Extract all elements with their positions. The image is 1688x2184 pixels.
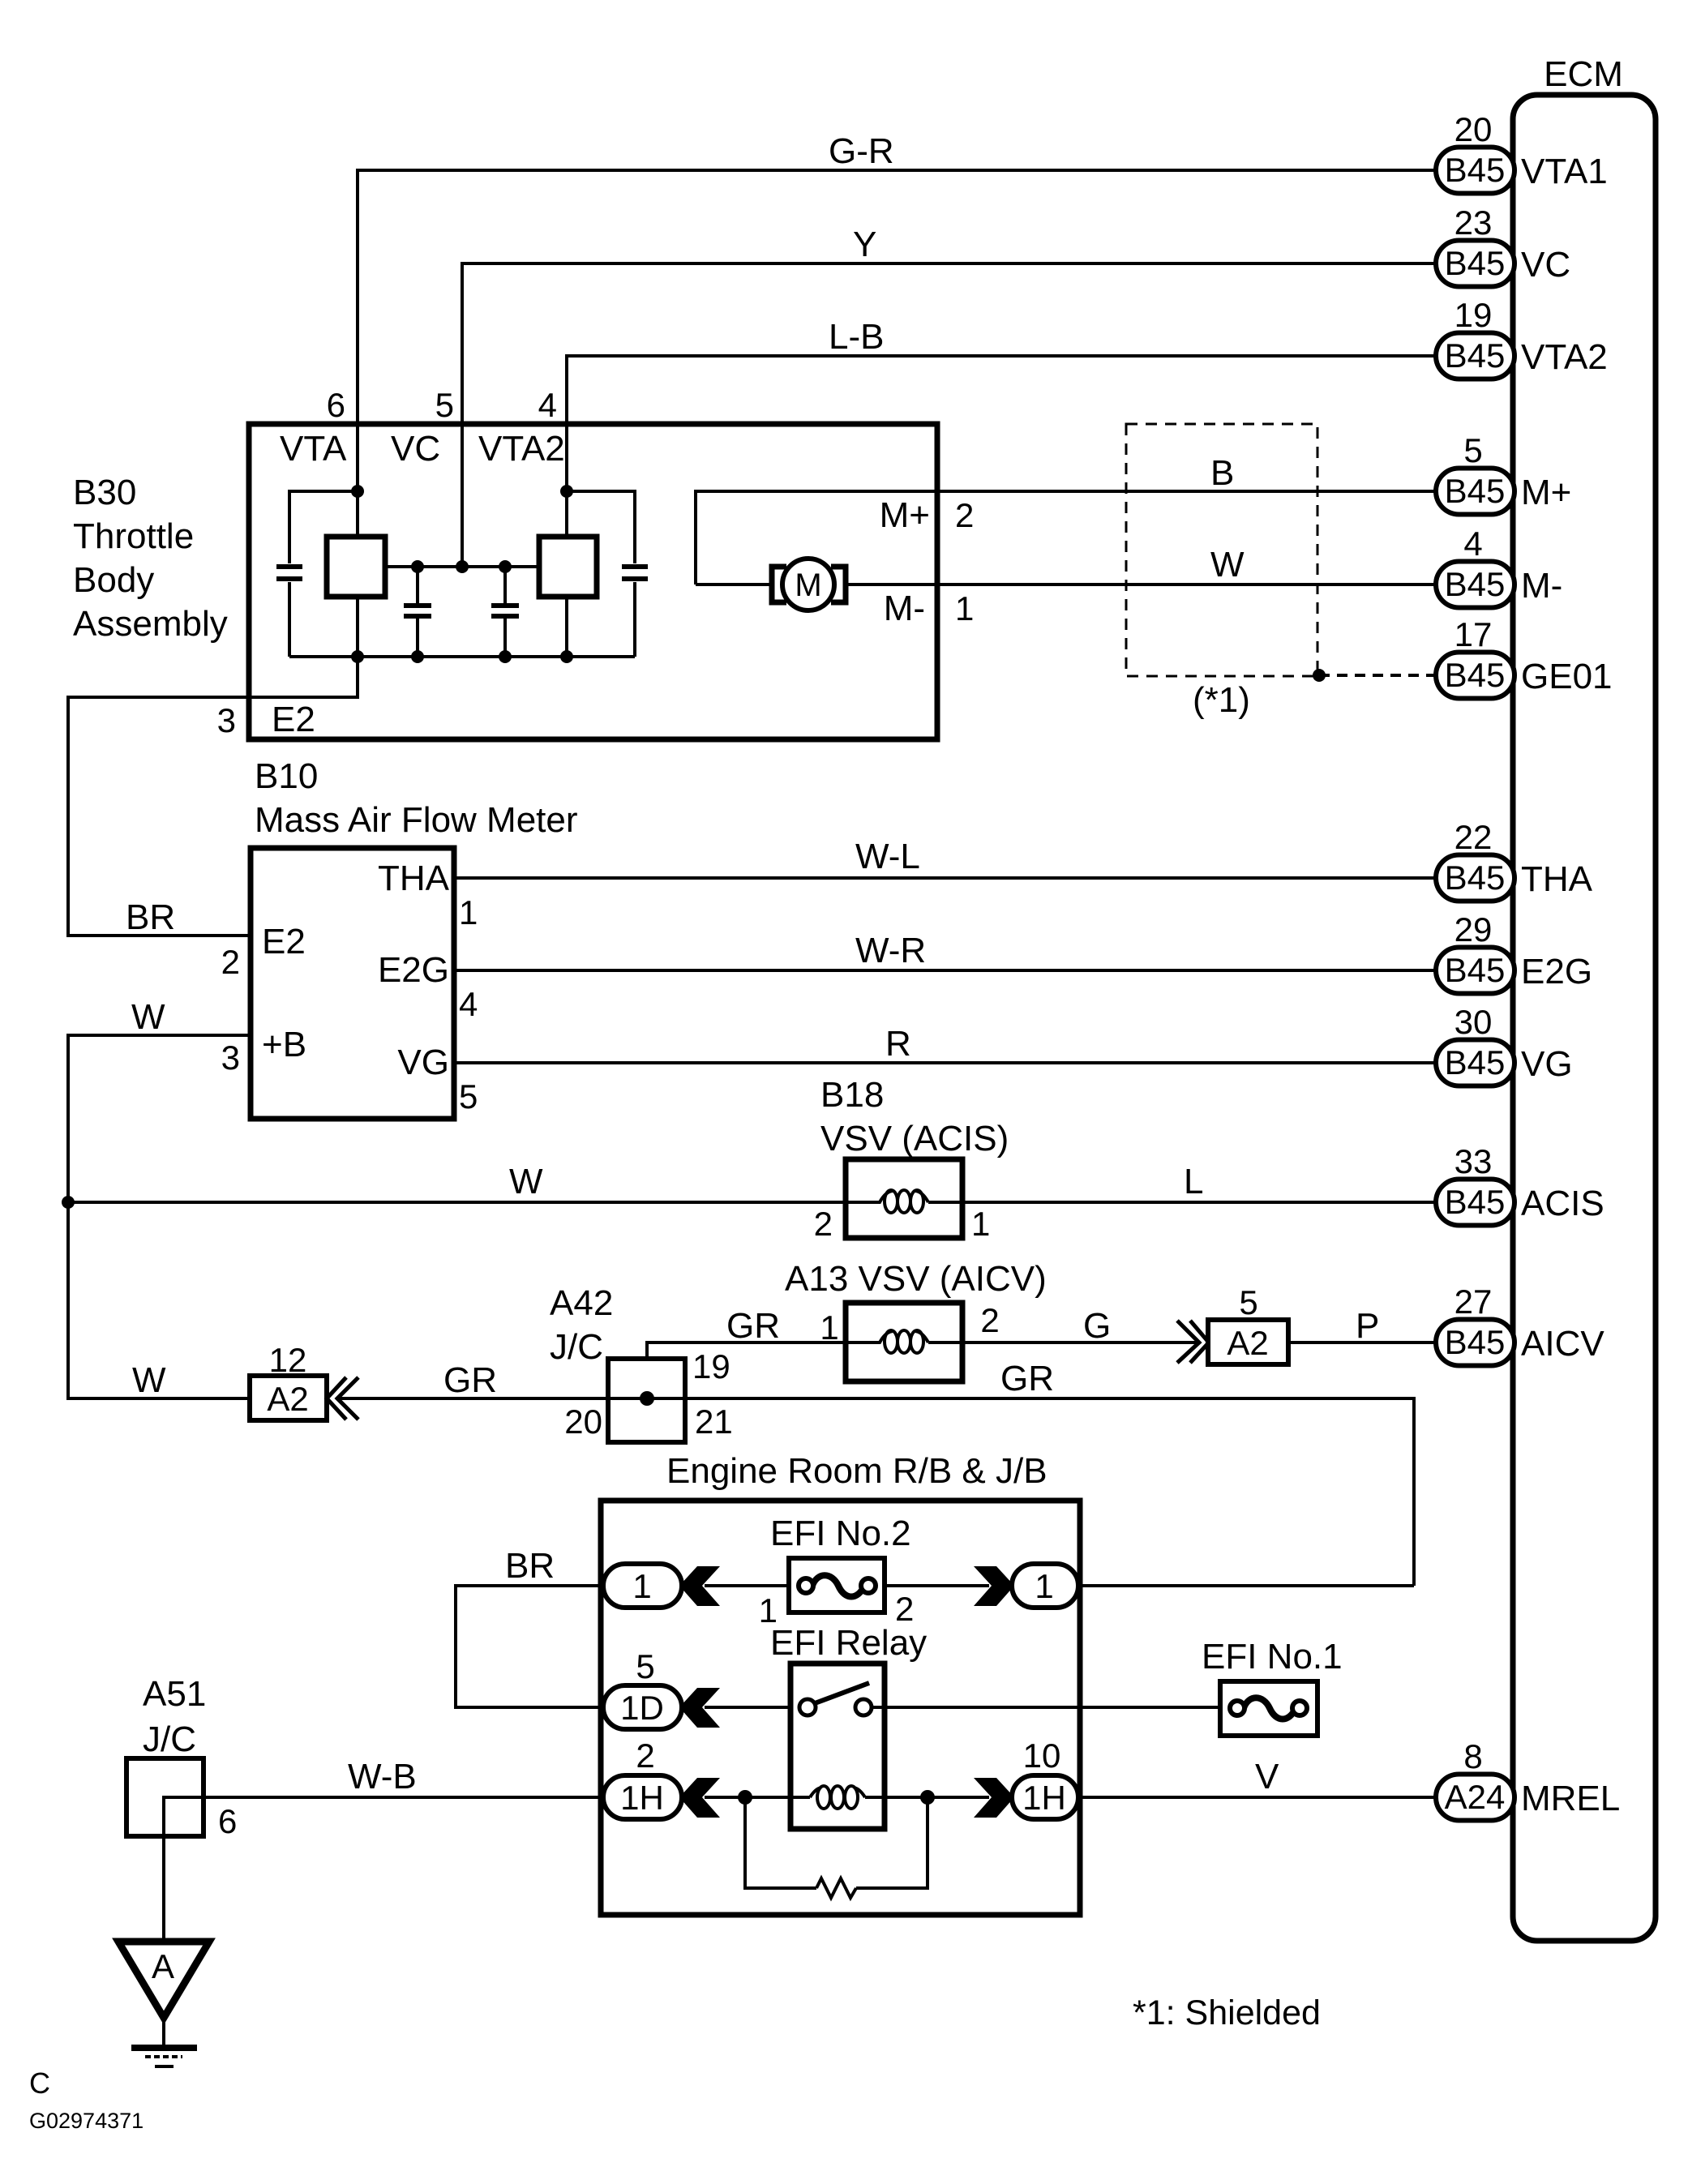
svg-text:M+: M+ (1521, 473, 1571, 512)
svg-text:GE01: GE01 (1521, 657, 1613, 696)
svg-text:A2: A2 (1227, 1324, 1268, 1362)
svg-text:5: 5 (1463, 431, 1482, 469)
svg-text:10: 10 (1023, 1736, 1061, 1775)
wire to EFI No.2 fuse (705, 1584, 789, 1587)
svg-text:2: 2 (814, 1205, 833, 1243)
motor M (772, 559, 846, 610)
svg-text:Assembly: Assembly (73, 604, 228, 644)
svg-text:VTA1: VTA1 (1521, 152, 1608, 191)
chevron arrow at terminal 1D (679, 1688, 720, 1728)
svg-text:MREL: MREL (1521, 1779, 1620, 1818)
svg-text:GR: GR (443, 1360, 497, 1400)
svg-text:5: 5 (435, 386, 454, 424)
connector terminal 1H right (1012, 1736, 1078, 1819)
svg-text:B10: B10 (255, 756, 318, 796)
svg-text:4: 4 (459, 985, 478, 1023)
capacitor C4 middle-right (491, 567, 519, 657)
wire: A42 pin 21 to EFI No.2 fuse output (685, 1398, 1414, 1586)
svg-text:B45: B45 (1445, 244, 1506, 282)
mass air flow meter B10 label (255, 756, 578, 840)
svg-text:5: 5 (1239, 1283, 1257, 1321)
svg-text:2: 2 (955, 496, 974, 534)
svg-text:VTA2: VTA2 (1521, 337, 1608, 377)
svg-text:2: 2 (980, 1301, 999, 1339)
junction connector A42 J/C (550, 1283, 733, 1442)
svg-text:GR: GR (1000, 1359, 1054, 1398)
wire W: +B branch down to A2 (12) (68, 1202, 250, 1400)
wire W-B: A51 J/C to terminal 1H (204, 1757, 603, 1797)
solenoid valve VSV AICV A13 (846, 1303, 1054, 1398)
svg-text:27: 27 (1455, 1283, 1493, 1321)
svg-text:Engine Room R/B & J/B: Engine Room R/B & J/B (666, 1451, 1048, 1491)
chevron arrow at terminal 1H right (974, 1778, 1014, 1818)
svg-text:M+: M+ (880, 495, 930, 535)
svg-text:Body: Body (73, 560, 154, 600)
svg-text:B30: B30 (73, 473, 136, 512)
svg-text:2: 2 (221, 943, 240, 981)
svg-text:THA: THA (1521, 859, 1593, 899)
capacitor C1 left (276, 567, 302, 579)
svg-text:B18: B18 (820, 1075, 884, 1115)
fuse EFI No.2 (759, 1558, 915, 1629)
svg-text:A24: A24 (1445, 1778, 1506, 1816)
wire V: 1H right to ECM MREL (1078, 1757, 1436, 1797)
svg-text:W: W (1210, 545, 1245, 585)
svg-text:BR: BR (505, 1546, 555, 1586)
chevron arrow at terminal 1 left (679, 1566, 720, 1606)
svg-text:22: 22 (1455, 818, 1493, 856)
ECM pin 17 connector B45 GE01 (1436, 615, 1613, 699)
capacitor C2 right (622, 567, 648, 579)
throttle M+ M- pin labels (880, 495, 975, 628)
engine room relay block box (601, 1501, 1080, 1915)
connector A2 (12) (250, 1341, 327, 1420)
svg-text:E2G: E2G (1521, 952, 1592, 991)
svg-text:GR: GR (726, 1306, 780, 1346)
svg-text:W: W (509, 1162, 543, 1201)
svg-text:A: A (152, 1947, 174, 1985)
ground symbol (131, 2018, 197, 2066)
svg-text:A13 VSV (AICV): A13 VSV (AICV) (785, 1259, 1047, 1299)
svg-text:1: 1 (632, 1567, 651, 1605)
svg-text:*1: Shielded: *1: Shielded (1133, 1993, 1321, 2032)
relay coil (810, 1786, 865, 1809)
svg-text:(*1): (*1) (1193, 680, 1250, 720)
wire BR: engine room 1 to 1D loop (456, 1546, 603, 1707)
node: W branch junction dot (62, 1196, 75, 1209)
svg-text:B45: B45 (1445, 336, 1506, 375)
svg-text:VG: VG (397, 1043, 449, 1082)
svg-text:VSV (ACIS): VSV (ACIS) (820, 1119, 1009, 1158)
ECM pin 30 connector B45 VG (1436, 1003, 1573, 1086)
svg-text:29: 29 (1455, 910, 1493, 949)
svg-text:W-L: W-L (855, 837, 920, 876)
wire Y: throttle VC pin 5 to ECM VC (462, 225, 1436, 567)
chevron double arrow into A2 (5) (1177, 1321, 1209, 1363)
wire L: VSV ACIS pin 1 to ECM ACIS (962, 1162, 1436, 1202)
svg-text:VTA2: VTA2 (478, 429, 565, 469)
connector terminal 1 right (1012, 1564, 1078, 1608)
svg-text:B45: B45 (1445, 565, 1506, 603)
svg-text:M-: M- (884, 589, 925, 628)
svg-text:6: 6 (327, 386, 345, 424)
svg-text:+B: +B (262, 1025, 306, 1064)
ECM pin 19 connector B45 VTA2 (1436, 296, 1608, 379)
svg-text:B45: B45 (1445, 472, 1506, 510)
fuse EFI No.1 (1220, 1681, 1317, 1736)
svg-text:21: 21 (695, 1402, 733, 1441)
motor M leads (696, 583, 937, 586)
svg-text:1: 1 (1035, 1567, 1053, 1605)
wire W-R: MAF E2G pin 4 to ECM E2G (454, 931, 1436, 970)
svg-text:B45: B45 (1445, 151, 1506, 189)
throttle body assembly B30 box (249, 386, 937, 739)
svg-text:20: 20 (564, 1402, 602, 1441)
svg-text:4: 4 (538, 386, 557, 424)
svg-text:A51: A51 (143, 1674, 206, 1714)
wire B: motor M+ to ECM M+ (696, 453, 1436, 585)
ECM pin 20 connector B45 VTA1 (1436, 110, 1608, 194)
svg-text:P: P (1356, 1306, 1379, 1346)
svg-text:VC: VC (1521, 245, 1570, 285)
wire from EFI No.2 fuse to right terminal (885, 1584, 989, 1587)
svg-text:30: 30 (1455, 1003, 1493, 1041)
svg-text:5: 5 (636, 1647, 654, 1685)
svg-text:19: 19 (692, 1347, 730, 1385)
svg-text:E2: E2 (262, 922, 306, 961)
svg-text:B45: B45 (1445, 656, 1506, 694)
svg-text:VC: VC (391, 429, 440, 469)
svg-text:Throttle: Throttle (73, 516, 194, 556)
svg-text:R: R (885, 1024, 911, 1064)
ECM pin 8 connector A24 MREL (1436, 1737, 1620, 1821)
wire shield drain to ECM GE01 (dashed) (1319, 674, 1436, 677)
svg-text:W: W (132, 1360, 166, 1400)
connector terminal 1 left (603, 1564, 682, 1608)
svg-text:L: L (1184, 1162, 1203, 1201)
svg-text:V: V (1255, 1757, 1279, 1796)
chevron arrow at terminal 1H left (679, 1778, 720, 1818)
ECM pin 29 connector B45 E2G (1436, 910, 1592, 994)
resistor R1 bypass (745, 1797, 928, 1898)
svg-text:B45: B45 (1445, 859, 1506, 897)
svg-text:17: 17 (1455, 615, 1493, 653)
svg-text:W-B: W-B (348, 1757, 417, 1796)
svg-text:J/C: J/C (143, 1719, 196, 1759)
connector A2 (5) (1208, 1283, 1288, 1364)
svg-text:3: 3 (217, 701, 236, 739)
svg-text:B45: B45 (1445, 1183, 1506, 1221)
svg-text:1: 1 (820, 1308, 838, 1347)
svg-text:23: 23 (1455, 203, 1493, 242)
svg-text:B: B (1210, 453, 1234, 493)
node dots in sensor network (351, 485, 573, 663)
svg-text:19: 19 (1455, 296, 1493, 334)
junction connector A51 J/C (126, 1674, 237, 1840)
svg-text:G02974371: G02974371 (29, 2109, 144, 2133)
sensor element box VTA (327, 491, 385, 657)
svg-text:B45: B45 (1445, 951, 1506, 989)
svg-text:12: 12 (269, 1341, 307, 1379)
wire P: connector A2 (5) to ECM AICV (1288, 1306, 1436, 1346)
solenoid valve VSV ACIS B18 (814, 1159, 991, 1243)
wire 1H to relay coil (705, 1796, 810, 1799)
wire: throttle E2 pin 3 to MAF E2 pin 2 (BR) (68, 657, 358, 937)
svg-text:1D: 1D (620, 1689, 664, 1727)
svg-text:1: 1 (971, 1205, 990, 1243)
svg-text:B45: B45 (1445, 1043, 1506, 1081)
node: coil right junction dot (920, 1790, 935, 1805)
svg-text:AICV: AICV (1521, 1324, 1604, 1364)
sensor bottom bus wire (289, 655, 635, 658)
wire 1D to relay switch (705, 1706, 808, 1709)
node: shield drain junction dot (1313, 669, 1326, 682)
svg-text:1: 1 (459, 893, 478, 931)
ECM pin 27 connector B45 AICV (1436, 1283, 1604, 1366)
throttle body B30 label (73, 473, 228, 644)
ECM pin 5 connector B45 M+ (1436, 431, 1571, 515)
svg-text:EFI No.1: EFI No.1 (1202, 1637, 1343, 1677)
svg-text:M: M (795, 567, 821, 603)
svg-text:5: 5 (459, 1077, 478, 1116)
wire L-B: throttle VTA2 pin 4 to ECM VTA2 (567, 317, 1436, 491)
svg-text:6: 6 (218, 1802, 237, 1840)
svg-text:G: G (1083, 1306, 1111, 1346)
svg-text:1H: 1H (1022, 1779, 1066, 1817)
svg-text:2: 2 (895, 1590, 914, 1628)
wire W-L: MAF THA pin 1 to ECM THA (454, 837, 1436, 878)
svg-text:A2: A2 (267, 1380, 308, 1418)
svg-text:33: 33 (1455, 1142, 1493, 1180)
capacitor C3 middle-left (404, 567, 431, 657)
shield box (*1) dashed (1126, 424, 1317, 720)
wire R: MAF VG pin 5 to ECM VG (454, 1024, 1436, 1064)
svg-text:W-R: W-R (855, 931, 926, 970)
svg-text:G-R: G-R (829, 131, 894, 171)
ECM U1 box (1513, 54, 1656, 1941)
wire G-R: throttle VTA pin 6 to ECM VTA1 (358, 131, 1436, 491)
svg-text:EFI No.2: EFI No.2 (770, 1514, 911, 1553)
wire G: VSV AICV pin 2 to connector A2 pin 5 (962, 1301, 1199, 1346)
svg-text:E2: E2 (272, 700, 315, 739)
svg-text:4: 4 (1463, 525, 1482, 563)
wire relay switch to EFI No.1 fuse (872, 1706, 1220, 1709)
mass air flow meter B10 box (221, 848, 478, 1119)
ECM pin 23 connector B45 VC (1436, 203, 1570, 287)
ground triangle A (118, 1942, 209, 2018)
wire A51 to ground (162, 1836, 165, 1942)
VSV (ACIS) B18 label (820, 1075, 1009, 1158)
svg-text:BR: BR (126, 897, 175, 937)
wire GR: junction A42 pin 19 to VSV AICV pin 1 (647, 1306, 846, 1398)
connector terminal 1D (603, 1647, 682, 1729)
node: coil left junction dot (738, 1790, 752, 1805)
svg-text:J/C: J/C (550, 1327, 603, 1367)
svg-text:1: 1 (955, 589, 974, 627)
svg-text:W: W (131, 997, 165, 1037)
ECM pin 4 connector B45 M- (1436, 525, 1562, 608)
svg-text:M-: M- (1521, 566, 1562, 606)
wire GR: A2 (12) to junction A42 pin 20 (338, 1360, 608, 1400)
wire from terminal 1 right to A42 junction riser (1078, 1584, 1414, 1587)
connector terminal 1H left (603, 1736, 682, 1819)
svg-text:Y: Y (853, 225, 876, 264)
svg-text:3: 3 (221, 1038, 240, 1077)
chevron double arrow out of A2 (12) (327, 1377, 358, 1420)
ECM pin 22 connector B45 THA (1436, 818, 1593, 901)
svg-text:VG: VG (1521, 1044, 1573, 1084)
relay EFI box (790, 1664, 885, 1829)
svg-text:20: 20 (1455, 110, 1493, 148)
wire W: MAF +B pin 3 branch (68, 997, 251, 1202)
svg-text:E2G: E2G (378, 950, 449, 990)
wire relay coil to 1H right (865, 1796, 989, 1799)
svg-text:L-B: L-B (829, 317, 884, 357)
svg-text:2: 2 (636, 1736, 654, 1775)
wire W: motor M- to ECM M- (849, 545, 1436, 585)
svg-text:C: C (29, 2066, 50, 2100)
svg-text:ECM: ECM (1544, 54, 1623, 94)
throttle position sensor outline wire left (289, 491, 358, 657)
svg-text:EFI Relay: EFI Relay (770, 1623, 927, 1663)
throttle position sensor outline wire right (567, 491, 635, 657)
svg-text:VTA: VTA (280, 429, 347, 469)
svg-text:THA: THA (378, 859, 450, 898)
svg-text:ACIS: ACIS (1521, 1184, 1604, 1223)
svg-text:Mass Air Flow Meter: Mass Air Flow Meter (255, 800, 578, 840)
chevron arrow at terminal 1 right (974, 1566, 1014, 1606)
ECM pin 33 connector B45 ACIS (1436, 1142, 1604, 1226)
wire W: +B branch to VSV ACIS pin 2 (68, 1162, 846, 1202)
sensor element box VTA2 (539, 491, 597, 657)
svg-text:A42: A42 (550, 1283, 613, 1323)
svg-text:1H: 1H (620, 1779, 664, 1817)
sensor middle wire (385, 565, 539, 568)
svg-text:B45: B45 (1445, 1323, 1506, 1361)
svg-text:8: 8 (1463, 1737, 1482, 1775)
